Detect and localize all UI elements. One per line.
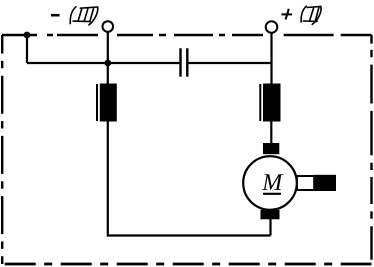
wire: choke L1 down and across bottom — [108, 122, 271, 236]
wire: choke L2 down to motor top brush — [270, 122, 272, 145]
wire: horizontal to capacitor left plate — [27, 62, 179, 64]
wire: capacitor right plate to right column — [188, 62, 271, 64]
motor M1 underline — [263, 193, 281, 195]
choke L2 body — [263, 84, 281, 122]
choke L2 core line — [259, 84, 261, 121]
motor M1 letter M — [262, 174, 283, 190]
choke L1 body — [100, 84, 117, 122]
motor shaft (black) — [314, 175, 336, 191]
terminal plus — [266, 21, 278, 33]
capacitor C1 left plate — [179, 48, 181, 76]
node: junction dot on boundary — [24, 32, 31, 39]
choke L1 core line — [96, 84, 98, 121]
motor shaft coupling (white) — [297, 176, 314, 190]
shield boundary left side — [1, 35, 3, 264]
wire: left border junction down — [26, 35, 28, 63]
shield boundary bottom side — [2, 263, 371, 266]
terminal minus — [103, 21, 114, 32]
label (II) winding numeral — [301, 6, 321, 24]
capacitor C1 right plate — [186, 48, 188, 76]
label minus sign — [51, 14, 60, 17]
shield boundary top side — [2, 34, 372, 36]
label (III) winding numeral — [70, 7, 98, 25]
label plus sign — [282, 9, 293, 20]
motor M1 bottom brush — [261, 210, 280, 220]
wire: right terminal down to choke L2 — [270, 32, 272, 84]
wire: bottom up to motor brush — [269, 218, 271, 236]
wire: left terminal down to choke L1 — [107, 32, 109, 84]
motor M1 body — [243, 156, 297, 210]
motor M1 top brush — [263, 143, 279, 154]
shield boundary right side — [370, 35, 372, 264]
node: junction dot at left column — [104, 60, 111, 67]
